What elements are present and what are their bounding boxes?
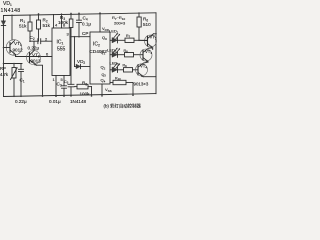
labels	[0, 1, 157, 109]
svg-text:IC1: IC1	[57, 40, 64, 46]
svg-text:VD1: VD1	[3, 1, 12, 7]
wire pin3 output line	[70, 36, 90, 38]
svg-text:Q1: Q1	[101, 50, 106, 56]
node dots	[3, 12, 157, 97]
svg-text:9012: 9012	[13, 48, 24, 53]
svg-text:0.1μ: 0.1μ	[82, 22, 91, 27]
capacitor C5	[68, 84, 74, 87]
svg-text:C2: C2	[30, 35, 35, 41]
resistor R6	[138, 13, 140, 17]
wire pin8 stub	[61, 14, 63, 28]
wire VT1 collector drop	[11, 15, 13, 40]
svg-text:R9: R9	[123, 64, 128, 69]
resistor R2	[38, 14, 40, 20]
wire top rail	[4, 13, 157, 16]
svg-text:4.7k: 4.7k	[0, 72, 9, 77]
svg-text:(b) 彩灯自动控制器: (b) 彩灯自动控制器	[104, 102, 142, 109]
svg-text:LED3: LED3	[110, 61, 120, 67]
wire R3 column down	[70, 37, 72, 85]
svg-text:555: 555	[57, 47, 66, 53]
potentiometer RP	[13, 64, 15, 68]
svg-text:VT3: VT3	[145, 49, 152, 55]
wire VD2 drop	[74, 37, 76, 67]
LED LED3	[110, 63, 138, 72]
svg-text:9013×3: 9013×3	[134, 82, 149, 87]
capacitor C4	[78, 13, 80, 20]
transistor VT4	[136, 64, 148, 76]
LED LED2	[110, 48, 143, 57]
transistor VT1	[6, 40, 22, 56]
svg-text:510: 510	[143, 22, 151, 27]
resistor R10 Q4 row	[110, 82, 113, 84]
svg-text:100k: 100k	[58, 20, 69, 25]
svg-text:0.22μ: 0.22μ	[15, 99, 27, 104]
svg-text:VT2: VT2	[32, 53, 40, 59]
svg-text:VT2: VT2	[150, 35, 157, 41]
wire pin1 stub	[55, 76, 57, 97]
svg-text:VT4: VT4	[140, 64, 147, 70]
svg-text:100k: 100k	[80, 92, 91, 97]
svg-text:R10: R10	[115, 77, 121, 82]
svg-text:R5: R5	[82, 81, 87, 87]
svg-text:Q0: Q0	[102, 35, 107, 41]
svg-text:1N4148: 1N4148	[70, 99, 87, 104]
wire left vertical	[3, 16, 5, 97]
svg-text:1N4148: 1N4148	[1, 8, 21, 14]
transistor VT2	[27, 51, 41, 65]
wire right vertical	[155, 13, 157, 94]
capacitor C3	[63, 76, 65, 86]
wire RP node line	[4, 63, 23, 65]
svg-text:Q4: Q4	[101, 78, 106, 84]
svg-text:RP: RP	[0, 66, 6, 71]
svg-text:C5: C5	[64, 80, 69, 85]
svg-text:LED1: LED1	[109, 29, 119, 35]
svg-text:VSS: VSS	[105, 87, 112, 93]
capacitor C2	[30, 40, 52, 42]
resistor R1	[29, 15, 31, 22]
resistor R3	[70, 13, 72, 19]
svg-text:IC2: IC2	[93, 42, 100, 48]
op-amp U1 IC1 555 box	[52, 28, 70, 76]
wire VSS stub	[101, 84, 103, 96]
svg-text:Q2: Q2	[101, 65, 106, 71]
svg-text:CP: CP	[82, 31, 88, 36]
transistor VT2r	[145, 35, 157, 47]
wire pin6 line	[16, 56, 53, 58]
svg-text:R7: R7	[126, 34, 131, 39]
diode VD2	[75, 66, 77, 68]
svg-text:C1: C1	[20, 78, 25, 84]
capacitor C1	[20, 64, 22, 70]
svg-text:C4: C4	[83, 16, 88, 22]
svg-text:51k: 51k	[19, 24, 27, 29]
op-amp U2 IC2 CD4022 box	[90, 32, 110, 84]
svg-text:C3: C3	[57, 82, 62, 88]
transistor VT3	[140, 49, 152, 61]
svg-text:LED2: LED2	[107, 48, 117, 54]
wire bottom rail	[4, 94, 157, 97]
diode VD1	[1, 21, 5, 25]
wire pin4 stub	[53, 14, 55, 28]
svg-text:R8: R8	[124, 49, 129, 54]
LED LED1	[110, 34, 148, 43]
svg-text:0.22μ: 0.22μ	[28, 46, 40, 51]
svg-text:0.01μ: 0.01μ	[49, 99, 61, 104]
resistor R5	[74, 86, 77, 88]
svg-text:200×3: 200×3	[114, 21, 126, 26]
svg-text:9013: 9013	[31, 59, 42, 64]
svg-text:VT1: VT1	[14, 41, 22, 47]
wire VDD stub	[99, 13, 101, 32]
svg-text:51k: 51k	[43, 23, 51, 28]
svg-text:VD2: VD2	[77, 59, 85, 65]
